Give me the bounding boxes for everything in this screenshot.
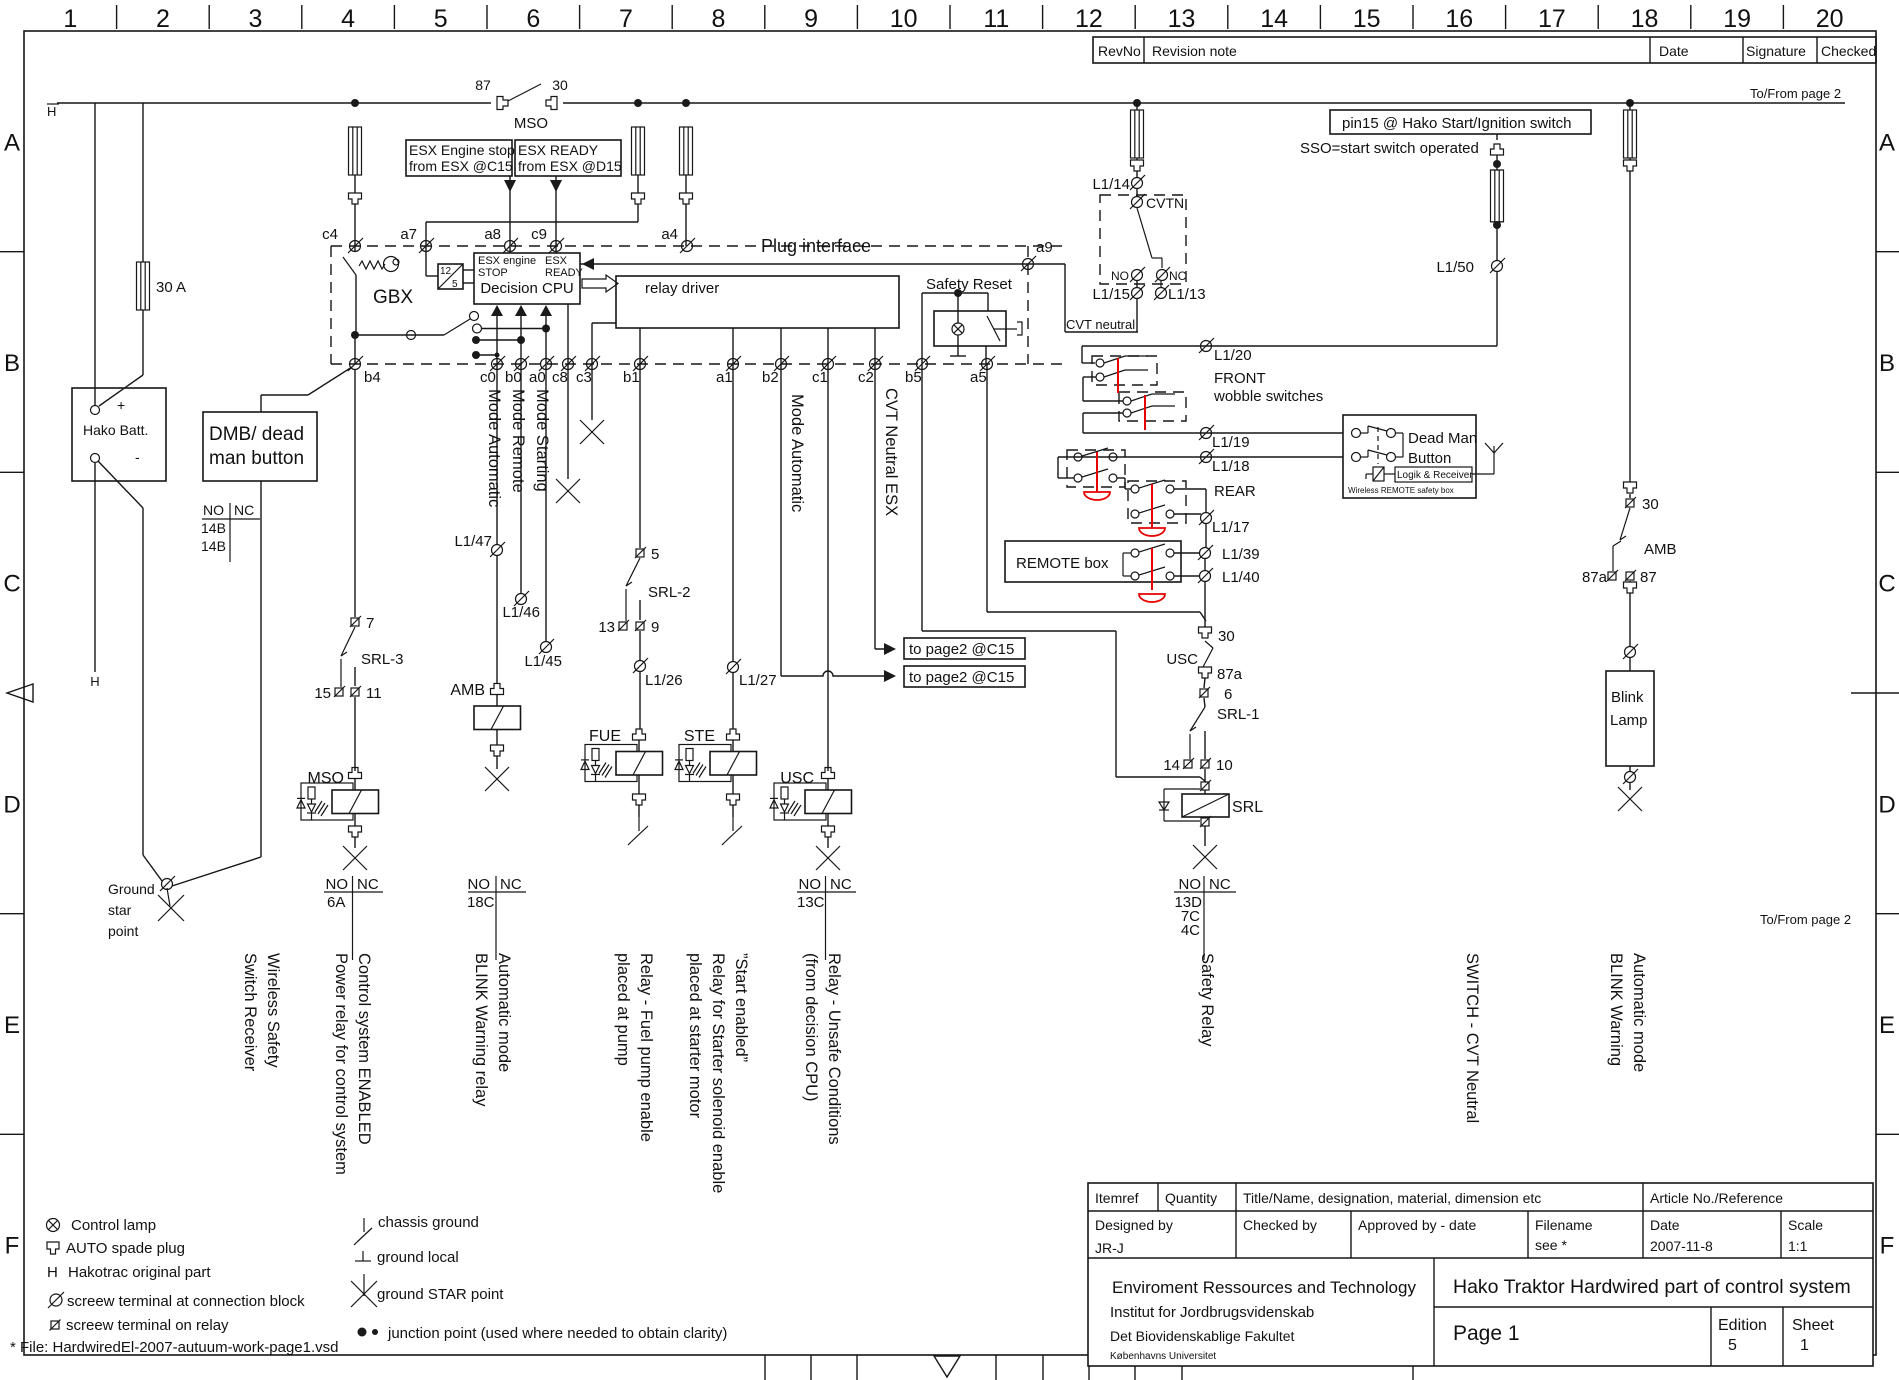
svg-text:C: C — [3, 571, 20, 598]
svg-text:5: 5 — [1728, 1337, 1737, 1354]
svg-text:BLINK Warning: BLINK Warning — [1607, 953, 1625, 1066]
svg-text:FRONT: FRONT — [1214, 370, 1266, 387]
svg-text:NO: NO — [1111, 269, 1129, 283]
svg-text:NO: NO — [468, 876, 491, 893]
svg-text:6: 6 — [1224, 686, 1232, 703]
svg-text:A: A — [1879, 129, 1895, 156]
svg-text:12: 12 — [1075, 5, 1103, 33]
svg-text:Relay - Fuel pump enable: Relay - Fuel pump enable — [637, 953, 655, 1142]
svg-text:c9: c9 — [531, 226, 547, 243]
svg-text:H: H — [47, 104, 56, 119]
svg-text:Control lamp: Control lamp — [71, 1217, 156, 1234]
svg-text:BLINK Warning relay: BLINK Warning relay — [472, 953, 490, 1107]
svg-text:18C: 18C — [467, 894, 495, 911]
svg-text:Relay - Unsafe Conditions: Relay - Unsafe Conditions — [825, 953, 843, 1145]
svg-text:ESX READY: ESX READY — [518, 142, 599, 158]
svg-text:point: point — [108, 923, 138, 939]
svg-text:L1/19: L1/19 — [1212, 434, 1250, 451]
svg-text:SRL: SRL — [1232, 799, 1263, 816]
svg-text:Blink: Blink — [1611, 689, 1644, 706]
svg-text:30: 30 — [1218, 628, 1235, 645]
svg-text:F: F — [5, 1233, 20, 1260]
svg-text:REMOTE box: REMOTE box — [1016, 555, 1109, 572]
svg-text:screew terminal at connection: screew terminal at connection block — [67, 1293, 305, 1310]
svg-text:Approved by - date: Approved by - date — [1358, 1217, 1477, 1233]
svg-text:NC: NC — [357, 876, 379, 893]
svg-text:AMB: AMB — [1644, 541, 1677, 558]
svg-text:from ESX @C15: from ESX @C15 — [409, 158, 513, 174]
svg-text:star: star — [108, 902, 132, 918]
svg-text:Title/Name, designation, mater: Title/Name, designation, material, dimen… — [1243, 1190, 1541, 1206]
svg-text:14B: 14B — [201, 520, 226, 536]
svg-text:1:1: 1:1 — [1788, 1238, 1808, 1254]
svg-text:Logik & Receiver: Logik & Receiver — [1397, 470, 1473, 481]
svg-text:H: H — [47, 1264, 58, 1281]
svg-text:SWITCH - CVT Neutral: SWITCH - CVT Neutral — [1463, 953, 1481, 1123]
svg-text:F: F — [1880, 1233, 1895, 1260]
svg-text:NC: NC — [1209, 876, 1231, 893]
svg-text:1: 1 — [63, 5, 77, 33]
svg-text:c0: c0 — [480, 369, 496, 386]
svg-text:NO: NO — [203, 502, 224, 518]
svg-text:placed at starter motor: placed at starter motor — [686, 953, 704, 1119]
svg-text:ground STAR point: ground STAR point — [377, 1286, 504, 1303]
svg-text:from ESX @D15: from ESX @D15 — [518, 158, 622, 174]
svg-text:Revision note: Revision note — [1152, 43, 1237, 59]
svg-text:Det Biovidenskablige Fakultet: Det Biovidenskablige Fakultet — [1110, 1328, 1295, 1344]
svg-text:C: C — [1878, 571, 1895, 598]
svg-text:(from decision CPU): (from decision CPU) — [802, 953, 820, 1102]
svg-text:man button: man button — [209, 448, 304, 469]
svg-text:c8: c8 — [552, 369, 568, 386]
svg-text:12: 12 — [440, 266, 452, 277]
svg-text:16: 16 — [1445, 5, 1473, 33]
svg-text:14: 14 — [1163, 757, 1180, 774]
svg-text:a0: a0 — [529, 369, 546, 386]
svg-text:ground local: ground local — [377, 1249, 459, 1266]
svg-text:13C: 13C — [797, 894, 825, 911]
svg-text:a8: a8 — [484, 226, 501, 243]
svg-text:L1/14: L1/14 — [1092, 176, 1130, 193]
svg-text:NC: NC — [830, 876, 852, 893]
svg-text:13: 13 — [598, 619, 615, 636]
svg-text:7: 7 — [366, 615, 374, 632]
svg-text:pin15 @ Hako Start/Ignition sw: pin15 @ Hako Start/Ignition switch — [1342, 115, 1572, 132]
svg-text:Dead Man: Dead Man — [1408, 430, 1477, 447]
svg-text:b1: b1 — [623, 369, 640, 386]
svg-text:to page2 @C15: to page2 @C15 — [909, 669, 1014, 686]
svg-text:DMB/ dead: DMB/ dead — [209, 424, 304, 445]
svg-text:-: - — [135, 449, 140, 465]
svg-text:b0: b0 — [505, 369, 522, 386]
svg-text:junction point (used where nee: junction point (used where needed to obt… — [387, 1325, 727, 1342]
svg-text:5: 5 — [651, 546, 659, 563]
svg-text:19: 19 — [1723, 5, 1751, 33]
svg-text:Page 1: Page 1 — [1453, 1322, 1520, 1345]
svg-text:relay driver: relay driver — [645, 280, 719, 297]
svg-text:15: 15 — [314, 685, 331, 702]
svg-text:14B: 14B — [201, 538, 226, 554]
svg-text:CVT Neutral ESX: CVT Neutral ESX — [882, 388, 900, 516]
svg-text:Power relay for control system: Power relay for control system — [332, 953, 350, 1175]
svg-text:Wireless REMOTE safety box: Wireless REMOTE safety box — [1348, 486, 1454, 495]
svg-text:15: 15 — [1353, 5, 1381, 33]
svg-text:Filename: Filename — [1535, 1217, 1593, 1233]
svg-text:E: E — [4, 1012, 20, 1039]
svg-text:c4: c4 — [322, 226, 338, 243]
svg-text:A: A — [4, 129, 20, 156]
svg-text:screew terminal on relay: screew terminal on relay — [66, 1317, 229, 1334]
svg-text:Lamp: Lamp — [1610, 712, 1648, 729]
svg-text:JR-J: JR-J — [1095, 1240, 1124, 1256]
svg-text:30: 30 — [1642, 496, 1659, 513]
svg-text:Itemref: Itemref — [1095, 1190, 1139, 1206]
svg-text:2007-11-8: 2007-11-8 — [1650, 1238, 1713, 1254]
svg-text:10: 10 — [890, 5, 918, 33]
svg-text:c2: c2 — [858, 369, 874, 386]
svg-text:L1/18: L1/18 — [1212, 458, 1250, 475]
svg-text:9: 9 — [804, 5, 818, 33]
svg-text:”Start enabled”: ”Start enabled” — [732, 953, 750, 1062]
svg-text:To/From page 2: To/From page 2 — [1750, 86, 1841, 101]
svg-text:a4: a4 — [661, 226, 678, 243]
svg-text:B: B — [4, 350, 20, 377]
svg-text:Institut for Jordbrugsvidenska: Institut for Jordbrugsvidenskab — [1110, 1304, 1314, 1321]
svg-text:b4: b4 — [364, 369, 381, 386]
svg-text:L1/40: L1/40 — [1222, 569, 1260, 586]
svg-text:7: 7 — [619, 5, 633, 33]
svg-text:11: 11 — [983, 5, 1009, 33]
svg-text:L1/27: L1/27 — [739, 672, 777, 689]
svg-text:SSO=start switch operated: SSO=start switch operated — [1300, 140, 1479, 157]
svg-text:REAR: REAR — [1214, 483, 1256, 500]
svg-text:Designed by: Designed by — [1095, 1217, 1173, 1233]
svg-text:NC: NC — [500, 876, 522, 893]
svg-text:L1/39: L1/39 — [1222, 546, 1260, 563]
svg-text:RevNo: RevNo — [1098, 43, 1141, 59]
svg-text:MSO: MSO — [514, 115, 548, 132]
svg-text:NC: NC — [234, 502, 254, 518]
svg-text:+: + — [117, 397, 125, 413]
svg-text:Edition: Edition — [1718, 1317, 1767, 1334]
svg-text:Enviroment Ressources and Tech: Enviroment Ressources and Technology — [1112, 1278, 1416, 1297]
svg-text:SRL-2: SRL-2 — [648, 584, 691, 601]
svg-text:6A: 6A — [327, 894, 345, 911]
svg-text:Automatic mode: Automatic mode — [495, 953, 513, 1072]
svg-text:chassis ground: chassis ground — [378, 1214, 479, 1231]
svg-text:Ground: Ground — [108, 881, 155, 897]
svg-text:L1/20: L1/20 — [1214, 347, 1252, 364]
svg-text:6: 6 — [526, 5, 540, 33]
svg-text:Plug interface: Plug interface — [761, 236, 871, 256]
svg-text:5: 5 — [434, 5, 448, 33]
svg-text:READY: READY — [545, 267, 584, 279]
svg-text:b2: b2 — [762, 369, 779, 386]
svg-text:5: 5 — [452, 279, 458, 290]
svg-text:L1/13: L1/13 — [1168, 286, 1206, 303]
svg-text:c1: c1 — [812, 369, 828, 386]
svg-text:Button: Button — [1408, 450, 1451, 467]
svg-text:4C: 4C — [1181, 922, 1200, 939]
svg-text:9: 9 — [651, 619, 659, 636]
svg-text:NO: NO — [326, 876, 349, 893]
svg-text:D: D — [3, 791, 20, 818]
svg-text:Safety Relay: Safety Relay — [1198, 953, 1216, 1047]
svg-text:30 A: 30 A — [156, 279, 186, 296]
svg-text:Switch Receiver: Switch Receiver — [241, 953, 259, 1072]
svg-text:Scale: Scale — [1788, 1217, 1823, 1233]
svg-text:ESX: ESX — [545, 255, 568, 267]
svg-text:a1: a1 — [716, 369, 733, 386]
svg-text:Checked by: Checked by — [1243, 1217, 1317, 1233]
svg-text:D: D — [1878, 791, 1895, 818]
svg-text:L1/46: L1/46 — [502, 604, 540, 621]
svg-text:AMB: AMB — [450, 682, 485, 699]
svg-text:11: 11 — [366, 685, 382, 702]
svg-text:Checked: Checked — [1821, 43, 1876, 59]
svg-text:Control system ENABLED: Control system ENABLED — [355, 953, 373, 1145]
svg-text:B: B — [1879, 350, 1895, 377]
svg-text:NC: NC — [1169, 269, 1187, 283]
svg-text:CVTN: CVTN — [1146, 195, 1184, 211]
svg-text:17: 17 — [1538, 5, 1566, 33]
svg-text:To/From page 2: To/From page 2 — [1760, 912, 1851, 927]
svg-text:b5: b5 — [905, 369, 922, 386]
svg-text:GBX: GBX — [373, 287, 413, 308]
svg-text:Mode Automatic: Mode Automatic — [788, 394, 806, 512]
svg-text:NO: NO — [1179, 876, 1202, 893]
svg-text:L1/17: L1/17 — [1212, 519, 1250, 536]
svg-text:a5: a5 — [970, 369, 987, 386]
svg-text:13: 13 — [1168, 5, 1196, 33]
svg-text:a7: a7 — [400, 226, 417, 243]
svg-text:30: 30 — [552, 77, 568, 93]
svg-text:see *: see * — [1535, 1237, 1567, 1253]
svg-text:AUTO spade plug: AUTO spade plug — [66, 1240, 185, 1257]
svg-text:2: 2 — [156, 5, 170, 33]
svg-text:MSO: MSO — [308, 770, 344, 787]
svg-text:Hakotrac original part: Hakotrac original part — [68, 1264, 211, 1281]
svg-text:L1/26: L1/26 — [645, 672, 683, 689]
svg-text:Signature: Signature — [1746, 43, 1806, 59]
svg-text:wobble switches: wobble switches — [1213, 388, 1323, 405]
svg-text:87: 87 — [475, 77, 491, 93]
svg-text:CVT neutral: CVT neutral — [1066, 317, 1135, 332]
svg-text:NO: NO — [799, 876, 822, 893]
svg-text:SRL-3: SRL-3 — [361, 651, 404, 668]
svg-text:* File: HardwiredEl-2007-autuu: * File: HardwiredEl-2007-autuum-work-pag… — [10, 1339, 338, 1356]
svg-text:to page2 @C15: to page2 @C15 — [909, 641, 1014, 658]
svg-text:Quantity: Quantity — [1165, 1190, 1217, 1206]
svg-text:Hako Batt.: Hako Batt. — [83, 422, 148, 438]
svg-text:USC: USC — [780, 770, 814, 787]
svg-text:L1/45: L1/45 — [524, 653, 562, 670]
svg-text:Safety Reset: Safety Reset — [926, 276, 1013, 293]
svg-text:87: 87 — [1640, 569, 1657, 586]
svg-text:STE: STE — [684, 728, 715, 745]
svg-text:20: 20 — [1816, 5, 1844, 33]
svg-text:SRL-1: SRL-1 — [1217, 706, 1260, 723]
svg-text:placed at pump: placed at pump — [614, 953, 632, 1066]
svg-text:c3: c3 — [576, 369, 592, 386]
svg-text:L1/15: L1/15 — [1092, 286, 1130, 303]
svg-text:Mode Automatic: Mode Automatic — [485, 389, 503, 507]
svg-text:Date: Date — [1659, 43, 1689, 59]
svg-text:Decision CPU: Decision CPU — [480, 280, 573, 297]
svg-text:USC: USC — [1166, 651, 1198, 668]
svg-text:Sheet: Sheet — [1792, 1317, 1834, 1334]
svg-text:18: 18 — [1631, 5, 1659, 33]
svg-text:Hako Traktor Hardwired part of: Hako Traktor Hardwired part of control s… — [1453, 1276, 1851, 1298]
svg-text:ESX engine: ESX engine — [478, 255, 536, 267]
svg-text:8: 8 — [712, 5, 726, 33]
svg-text:Article No./Reference: Article No./Reference — [1650, 1190, 1783, 1206]
svg-text:4: 4 — [341, 5, 355, 33]
svg-text:a9: a9 — [1036, 239, 1053, 256]
svg-text:Mode Starting: Mode Starting — [533, 389, 551, 492]
svg-text:Københavns Universitet: Københavns Universitet — [1110, 1351, 1216, 1362]
svg-text:10: 10 — [1216, 757, 1233, 774]
svg-text:FUE: FUE — [589, 728, 621, 745]
svg-text:E: E — [1879, 1012, 1895, 1039]
svg-text:3: 3 — [249, 5, 263, 33]
svg-text:ESX Engine stop: ESX Engine stop — [409, 142, 515, 158]
svg-text:1: 1 — [1800, 1337, 1809, 1354]
svg-text:14: 14 — [1260, 5, 1288, 33]
svg-text:Date: Date — [1650, 1217, 1680, 1233]
svg-text:H: H — [90, 674, 99, 689]
svg-text:Relay for Starter solenoid ena: Relay for Starter solenoid enable — [709, 953, 727, 1193]
svg-text:L1/50: L1/50 — [1436, 259, 1474, 276]
svg-text:87a: 87a — [1582, 569, 1608, 586]
svg-text:Mode Remote: Mode Remote — [509, 389, 527, 493]
svg-text:L1/47: L1/47 — [454, 533, 492, 550]
svg-text:STOP: STOP — [478, 267, 508, 279]
svg-text:Wireless Safety: Wireless Safety — [264, 953, 282, 1068]
svg-text:Automatic mode: Automatic mode — [1630, 953, 1648, 1072]
svg-text:87a: 87a — [1217, 666, 1243, 683]
